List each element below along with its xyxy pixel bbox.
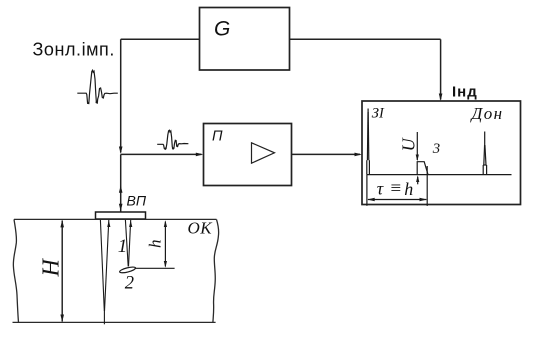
svg-text:Дон: Дон bbox=[470, 104, 504, 123]
svg-text:ВП: ВП bbox=[127, 193, 147, 209]
svg-text:H: H bbox=[39, 258, 65, 278]
svg-text:τ: τ bbox=[377, 179, 384, 199]
svg-text:ОК: ОК bbox=[188, 219, 214, 238]
svg-text:h: h bbox=[145, 240, 164, 249]
svg-text:П: П bbox=[212, 129, 223, 145]
svg-text:U: U bbox=[398, 137, 418, 151]
svg-text:Інд: Інд bbox=[452, 83, 478, 100]
svg-text:h: h bbox=[404, 179, 413, 199]
svg-text:≡: ≡ bbox=[389, 178, 402, 199]
svg-text:2: 2 bbox=[125, 273, 134, 293]
svg-text:ЗІ: ЗІ bbox=[372, 106, 385, 122]
svg-text:Зонл.імп.: Зонл.імп. bbox=[33, 40, 115, 60]
svg-text:3: 3 bbox=[432, 141, 440, 157]
svg-text:G: G bbox=[214, 17, 230, 40]
svg-text:1: 1 bbox=[118, 236, 128, 257]
